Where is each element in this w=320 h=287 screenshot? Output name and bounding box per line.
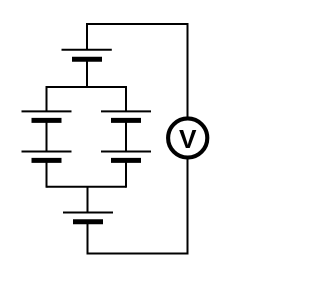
battery B6 (bottom cell) [63, 213, 113, 222]
node bottom bus (parallel join) [47, 186, 127, 188]
wire bottom-left vertical (B6 negative down) [87, 222, 89, 254]
wire left branch middle [46, 120, 48, 151]
wire top-left vertical (battery B1 positive to top rail) [86, 24, 88, 50]
battery B2 (left branch upper cell) [22, 111, 72, 120]
voltmeter label V [179, 130, 196, 148]
wire top rail horizontal [86, 23, 188, 25]
wire left branch upper [46, 86, 48, 111]
node top bus (parallel split) [47, 86, 127, 88]
wire B1 negative to top bus node [86, 59, 88, 88]
battery B1 (top cell) [62, 50, 112, 60]
battery B4 (right branch upper cell) [101, 111, 151, 120]
wire right branch middle [125, 120, 127, 151]
wire right spine upper (top rail down to voltmeter) [187, 23, 189, 118]
wire bottom rail horizontal [87, 253, 188, 255]
wire bottom bus to battery B6 [87, 187, 89, 213]
wire left branch lower [46, 160, 48, 187]
battery B3 (left branch lower cell) [22, 152, 72, 161]
wire right branch lower [125, 160, 127, 187]
wire right spine lower (voltmeter down to bottom rail) [187, 158, 189, 255]
voltmeter V (circle body) [168, 118, 207, 157]
wire right branch upper [125, 86, 127, 111]
battery B5 (right branch lower cell) [101, 152, 151, 161]
